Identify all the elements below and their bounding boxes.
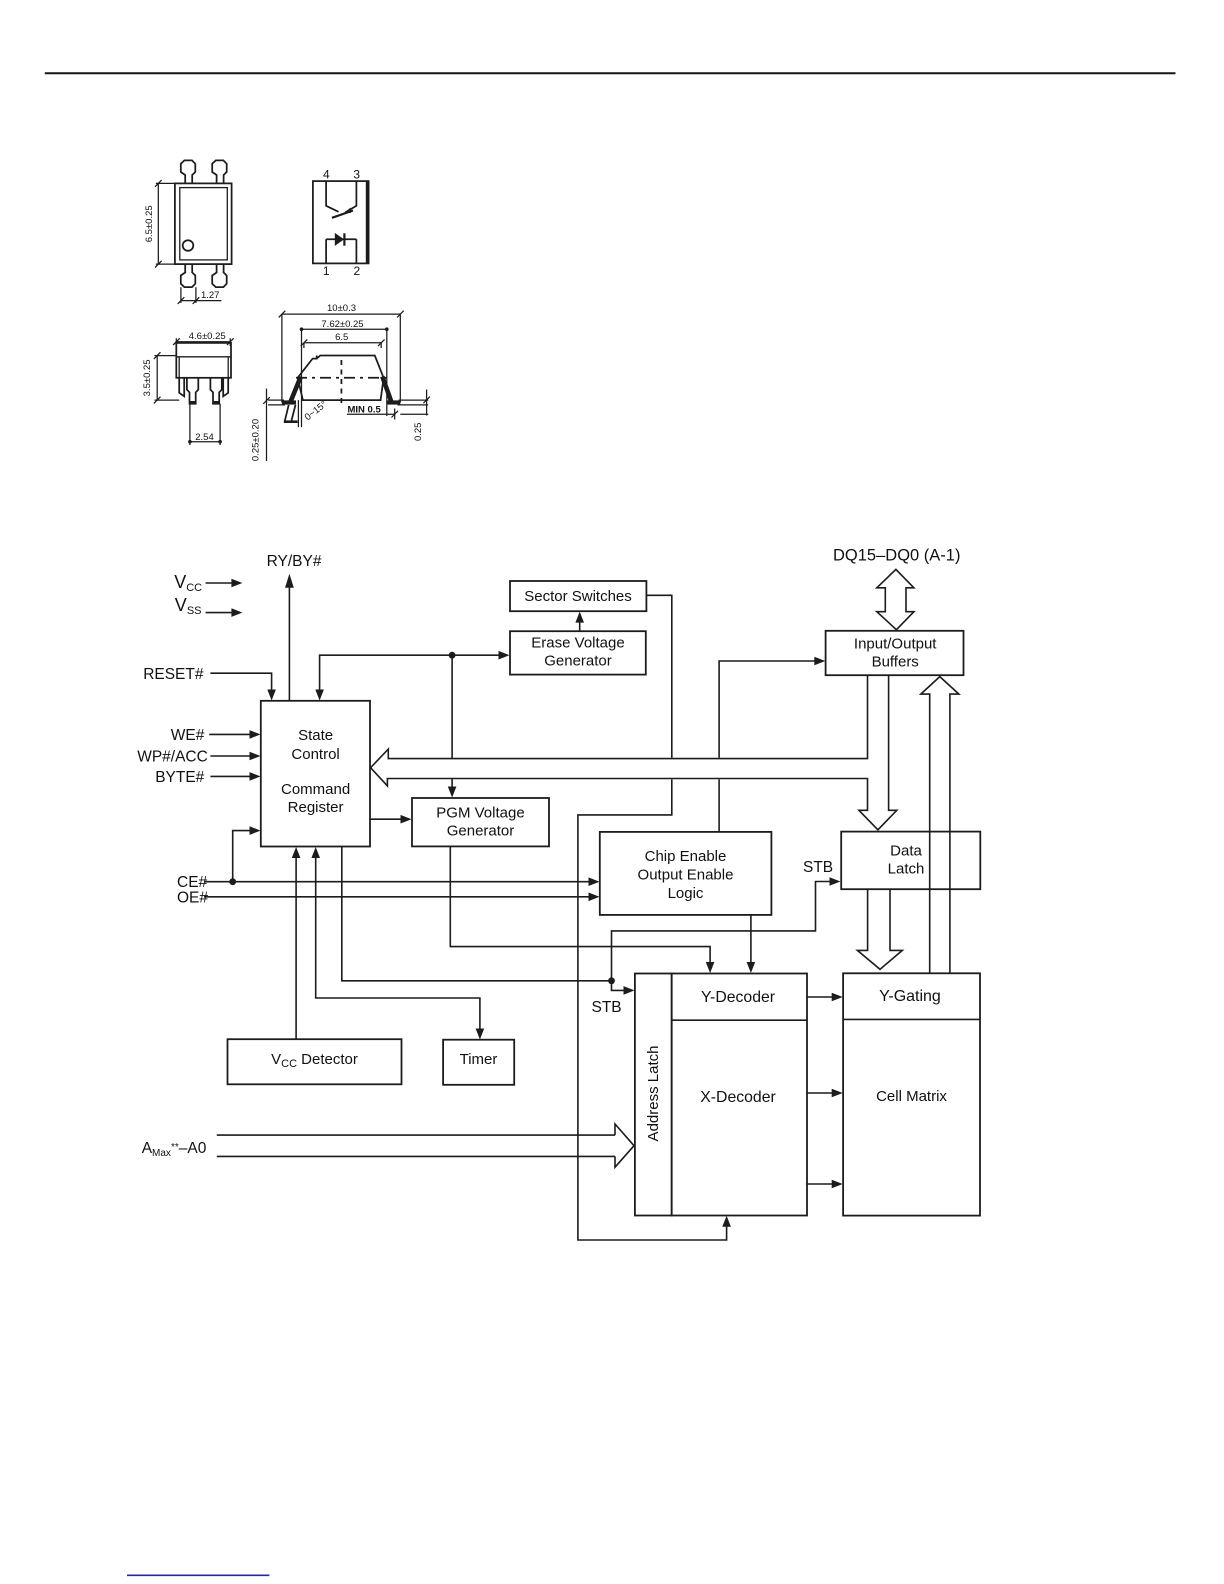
svg-text:7.62±0.25: 7.62±0.25 xyxy=(321,319,363,330)
svg-text:BYTE#: BYTE# xyxy=(155,769,204,786)
svg-text:CE#: CE# xyxy=(177,874,208,891)
svg-text:Latch: Latch xyxy=(888,861,925,878)
svg-text:4: 4 xyxy=(323,168,330,182)
svg-text:2.54: 2.54 xyxy=(195,432,214,443)
svg-text:Generator: Generator xyxy=(447,823,515,840)
svg-text:Timer: Timer xyxy=(460,1051,498,1068)
svg-text:Logic: Logic xyxy=(668,885,704,902)
svg-text:Y-Decoder: Y-Decoder xyxy=(701,989,775,1006)
svg-text:STB: STB xyxy=(803,859,833,876)
svg-text:VCC: VCC xyxy=(174,572,202,594)
svg-text:Data: Data xyxy=(890,843,922,860)
svg-text:6.5: 6.5 xyxy=(335,332,348,343)
svg-text:X-Decoder: X-Decoder xyxy=(700,1089,776,1106)
svg-text:RESET#: RESET# xyxy=(143,666,204,683)
svg-text:3.5±0.25: 3.5±0.25 xyxy=(142,359,153,396)
svg-text:RY/BY#: RY/BY# xyxy=(267,553,322,570)
svg-text:OE#: OE# xyxy=(177,890,208,907)
svg-text:Chip Enable: Chip Enable xyxy=(645,848,727,865)
svg-text:Generator: Generator xyxy=(544,653,612,670)
svg-text:Register: Register xyxy=(288,799,344,816)
svg-text:Erase Voltage: Erase Voltage xyxy=(531,635,624,652)
svg-text:Input/Output: Input/Output xyxy=(854,636,937,653)
svg-text:STB: STB xyxy=(592,999,622,1016)
svg-text:Y-Gating: Y-Gating xyxy=(879,988,941,1005)
svg-text:Sector Switches: Sector Switches xyxy=(524,588,632,605)
svg-text:0~15°: 0~15° xyxy=(303,399,330,423)
svg-text:VSS: VSS xyxy=(175,595,202,617)
svg-text:Cell Matrix: Cell Matrix xyxy=(876,1088,947,1105)
svg-text:0.25±0.20: 0.25±0.20 xyxy=(250,419,261,461)
svg-text:2: 2 xyxy=(354,264,361,278)
svg-text:3: 3 xyxy=(353,168,360,182)
svg-text:4.6±0.25: 4.6±0.25 xyxy=(189,331,226,342)
svg-text:Command: Command xyxy=(281,781,350,798)
svg-text:1: 1 xyxy=(323,264,330,278)
svg-text:6.5±0.25: 6.5±0.25 xyxy=(144,205,155,242)
svg-text:State: State xyxy=(298,727,333,744)
svg-text:Buffers: Buffers xyxy=(872,654,919,671)
svg-text:10±0.3: 10±0.3 xyxy=(327,303,356,314)
svg-text:AMax**–A0: AMax**–A0 xyxy=(142,1140,207,1159)
svg-text:WP#/ACC: WP#/ACC xyxy=(137,749,208,766)
svg-text:1.27: 1.27 xyxy=(201,290,220,301)
svg-text:Output Enable: Output Enable xyxy=(638,867,734,884)
svg-text:DQ15–DQ0 (A-1): DQ15–DQ0 (A-1) xyxy=(833,547,960,565)
svg-text:0.25: 0.25 xyxy=(413,423,424,442)
svg-text:Control: Control xyxy=(291,746,339,763)
svg-text:Address Latch: Address Latch xyxy=(645,1046,662,1142)
svg-text:PGM Voltage: PGM Voltage xyxy=(436,805,524,822)
svg-text:WE#: WE# xyxy=(171,727,205,744)
